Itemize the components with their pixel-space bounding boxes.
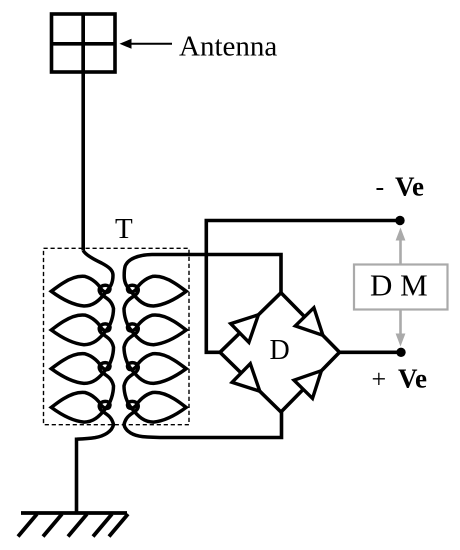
node +Ve dot xyxy=(396,348,405,357)
svg-text:Ve: Ve xyxy=(395,171,424,201)
diode bridge diamond xyxy=(220,293,340,412)
wire +Ve: bridge right vertex to dot xyxy=(340,350,402,354)
gray arrow down (to +Ve node) xyxy=(396,310,406,347)
svg-text:D M: D M xyxy=(370,268,428,303)
diode D-tr (points to right vertex) xyxy=(295,308,323,336)
wire: secondary bottom to bridge AC node (bottom vertex) xyxy=(230,412,282,438)
wire -Ve: from dot left, down, to bridge left vertex xyxy=(206,221,400,353)
DM box xyxy=(354,265,448,310)
svg-text:-: - xyxy=(376,172,385,201)
transformer dashed box xyxy=(44,248,190,424)
wire: antenna feed xyxy=(81,14,85,251)
svg-text:Ve: Ve xyxy=(398,363,427,393)
wire: primary to ground xyxy=(75,470,79,513)
svg-text:D: D xyxy=(270,335,290,366)
gray arrow up (to -Ve node) xyxy=(396,228,406,265)
svg-text:Antenna: Antenna xyxy=(179,31,277,63)
svg-text:+: + xyxy=(372,364,387,393)
arrow to antenna label xyxy=(120,39,173,49)
diode D-tl (points to top vertex) xyxy=(231,315,259,343)
antenna xyxy=(52,14,116,72)
ground xyxy=(18,513,128,537)
transformer T primary winding xyxy=(51,251,113,471)
svg-text:T: T xyxy=(115,213,133,245)
wire: secondary top to bridge AC node (top vertex) xyxy=(170,255,281,293)
diode D-bl (points to bottom vertex) xyxy=(232,364,260,392)
diode D-br (points to right vertex) xyxy=(294,371,321,399)
transformer T secondary winding xyxy=(124,255,230,438)
node -Ve dot xyxy=(395,216,404,225)
